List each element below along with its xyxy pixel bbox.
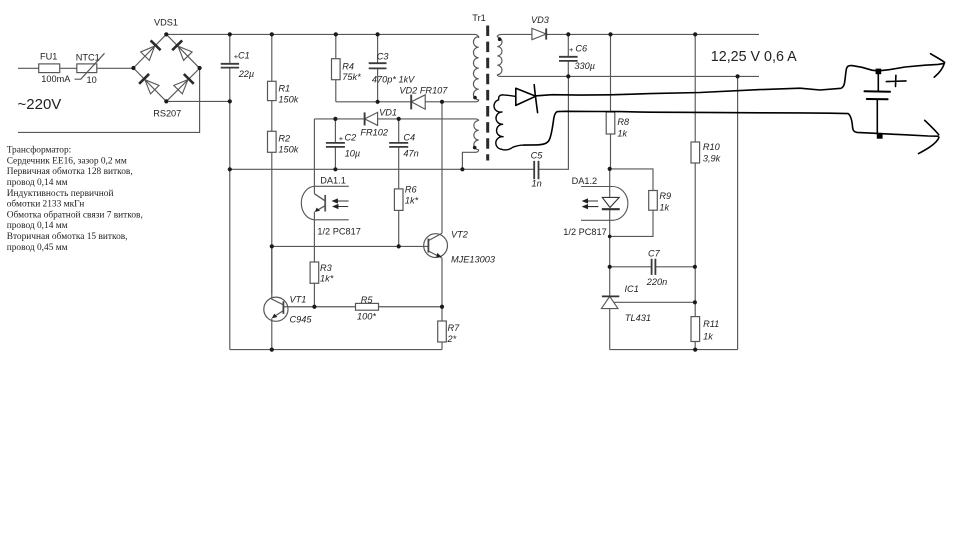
svg-text:47n: 47n [403, 149, 418, 159]
svg-text:1k*: 1k* [320, 274, 334, 284]
svg-text:Трансформатор:: Трансформатор: [7, 145, 72, 156]
svg-text:470p* 1kV: 470p* 1kV [372, 75, 415, 85]
svg-text:VDS1: VDS1 [154, 18, 178, 28]
svg-text:Tr1: Tr1 [472, 13, 485, 23]
svg-text:C3: C3 [377, 52, 390, 62]
svg-text:100mA: 100mA [41, 74, 71, 84]
svg-text:FR102: FR102 [360, 128, 388, 138]
svg-text:VT1: VT1 [290, 295, 307, 305]
svg-text:VD1: VD1 [379, 108, 397, 118]
svg-text:+: + [234, 52, 239, 61]
svg-text:R1: R1 [278, 84, 290, 94]
svg-text:C7: C7 [648, 249, 661, 259]
svg-text:1k: 1k [703, 332, 713, 342]
svg-text:R7: R7 [448, 323, 461, 333]
svg-text:R5: R5 [361, 295, 374, 305]
svg-text:провод 0,14 мм: провод 0,14 мм [7, 221, 68, 231]
svg-text:3,9k: 3,9k [703, 154, 721, 164]
svg-text:Первичная обмотка 128 витков,: Первичная обмотка 128 витков, [7, 166, 133, 177]
svg-text:провод 0,14 мм: провод 0,14 мм [7, 178, 68, 188]
svg-text:R9: R9 [659, 191, 671, 201]
svg-text:RS207: RS207 [153, 109, 181, 119]
svg-text:1/2 PC817: 1/2 PC817 [563, 227, 606, 237]
svg-text:10: 10 [87, 75, 97, 85]
svg-text:C2: C2 [345, 133, 357, 143]
svg-text:VT2: VT2 [451, 230, 468, 240]
svg-text:220n: 220n [646, 277, 667, 287]
svg-text:R4: R4 [342, 62, 354, 72]
svg-text:R2: R2 [278, 134, 290, 144]
svg-text:150k: 150k [278, 145, 298, 155]
svg-text:R11: R11 [703, 319, 719, 329]
svg-text:C1: C1 [238, 51, 250, 61]
svg-text:1/2 PC817: 1/2 PC817 [317, 227, 360, 237]
svg-text:C6: C6 [575, 44, 588, 54]
svg-text:+: + [339, 134, 344, 143]
svg-text:провод 0,45 мм: провод 0,45 мм [7, 243, 68, 253]
svg-text:1n: 1n [532, 179, 542, 189]
svg-text:Сердечник ЕЕ16, зазор 0,2 мм: Сердечник ЕЕ16, зазор 0,2 мм [7, 156, 127, 166]
svg-text:330µ: 330µ [574, 61, 595, 71]
svg-text:TL431: TL431 [625, 313, 651, 323]
svg-text:150k: 150k [278, 95, 298, 105]
svg-text:DA1.2: DA1.2 [572, 176, 598, 186]
svg-text:12,25 V 0,6 A: 12,25 V 0,6 A [711, 49, 797, 65]
svg-text:FU1: FU1 [40, 52, 57, 62]
svg-text:1k*: 1k* [405, 196, 419, 206]
svg-text:10µ: 10µ [345, 149, 361, 159]
svg-text:~220V: ~220V [18, 96, 62, 113]
svg-text:R10: R10 [703, 142, 721, 152]
svg-text:обмотки 2133 мкГн: обмотки 2133 мкГн [7, 199, 85, 210]
svg-text:VD3: VD3 [531, 15, 550, 25]
svg-text:C5: C5 [531, 151, 544, 161]
svg-text:R6: R6 [405, 185, 418, 195]
svg-text:R3: R3 [320, 263, 333, 273]
svg-text:Вторичная обмотка 15 витков,: Вторичная обмотка 15 витков, [7, 231, 128, 242]
svg-text:22µ: 22µ [238, 69, 255, 79]
svg-text:+: + [569, 45, 574, 54]
svg-text:75k*: 75k* [342, 72, 361, 82]
svg-text:2*: 2* [447, 334, 457, 344]
svg-text:R8: R8 [617, 117, 630, 127]
svg-text:NTC1: NTC1 [76, 53, 100, 63]
svg-text:100*: 100* [357, 312, 376, 322]
svg-text:MJE13003: MJE13003 [451, 255, 496, 265]
svg-text:IC1: IC1 [625, 284, 639, 294]
svg-text:VD2 FR107: VD2 FR107 [399, 86, 448, 96]
svg-text:Индуктивность первичной: Индуктивность первичной [7, 188, 114, 199]
svg-text:C4: C4 [403, 133, 415, 143]
svg-text:Обмотка обратной связи 7 витко: Обмотка обратной связи 7 витков, [7, 209, 143, 220]
svg-text:1k: 1k [659, 203, 669, 213]
svg-text:DA1.1: DA1.1 [320, 176, 346, 186]
svg-text:C945: C945 [290, 315, 313, 325]
svg-text:1k: 1k [617, 129, 627, 139]
